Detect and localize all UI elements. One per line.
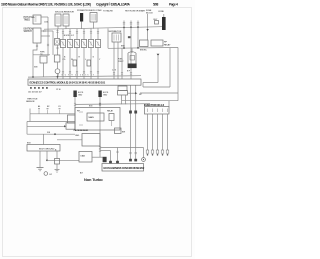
wire left jog [33, 54, 50, 56]
wire plug drop x63 [62, 48, 64, 80]
wire resistor chain [57, 62, 59, 79]
condenser C1 [162, 17, 166, 30]
connector tick left chain b [56, 47, 58, 49]
connector tick on stub [36, 45, 38, 46]
svg-text:MAIN: MAIN [89, 116, 95, 119]
wire x75 down [74, 97, 76, 115]
feed wire y48 [108, 47, 178, 50]
wire long vertical x135.7 lower [135, 85, 137, 160]
wire x57 stub [56, 164, 58, 169]
strip pin squares [30, 87, 32, 89]
injector terminal 1 [146, 150, 149, 153]
connector ticks module feeds [113, 73, 132, 75]
fuel pump connector box [118, 86, 127, 91]
solenoid box M2 [82, 134, 100, 147]
wire plug drop x77 [76, 48, 78, 80]
node dot y134 [54, 133, 56, 135]
small box left of big box [68, 115, 76, 123]
injector terminal 3 [156, 150, 159, 153]
ground symbol GND1 [37, 168, 44, 171]
wire to fuel pump arrow [128, 92, 136, 94]
wire vertical x147.5 [147, 14, 149, 40]
connector dash x137 bottom [134, 159, 137, 162]
check connector J1 [90, 13, 97, 23]
crossing ticks y104 [74, 103, 101, 105]
stub with connector x131 [130, 21, 132, 28]
coil row feed wire x98 [97, 29, 99, 40]
coil row feed wire x91 [90, 29, 92, 40]
wire y157 [92, 156, 103, 158]
ground bar G2 [98, 91, 101, 98]
fuse F1 [151, 40, 163, 46]
svg-text:SWITCH: SWITCH [24, 31, 33, 33]
node dot y104 [99, 103, 101, 105]
injector symbols [148, 109, 168, 113]
wire y150.5 [100, 150, 111, 152]
wire vertical x53 [52, 31, 54, 55]
svg-text:COND: COND [158, 11, 164, 13]
wire coil stubs to bus [58, 26, 66, 29]
svg-text:1995 Nissan-Datsun Maxima DR67: 1995 Nissan-Datsun Maxima DR672 3.0L V6-… [1, 3, 91, 7]
wire x47 down [46, 151, 48, 160]
svg-text:B W R L G Y: B W R L G Y [64, 35, 75, 37]
svg-text:HOT IN ON OR START: HOT IN ON OR START [125, 10, 146, 13]
connector dash x110.5 [109, 161, 112, 164]
connector square x137 [134, 111, 137, 114]
wire S1 to module bus [43, 63, 45, 77]
distributor D1 [112, 33, 121, 42]
connector ticks x131 x137 low [129, 152, 137, 154]
fuel pump plug [118, 91, 128, 95]
screw terminal circle [142, 158, 146, 162]
wire stack drop a [121, 95, 123, 104]
wire x40 down [39, 151, 41, 167]
wire into solenoid [57, 139, 82, 141]
svg-text:101 103 105 107: 101 103 105 107 [28, 92, 43, 94]
injector wire 2 [152, 114, 154, 150]
wire plug drop x98 [97, 48, 99, 80]
diode block D2 [55, 39, 60, 46]
sensor frame left edge [29, 114, 31, 122]
connector dashes row [38, 108, 61, 110]
page border frame [3, 8, 192, 257]
coil row feed wire x77 [76, 29, 78, 40]
small box at big box corner [115, 128, 122, 134]
injector terminal 2 [151, 150, 154, 153]
wire long vertical x130.5 lower [130, 85, 132, 160]
injector terminal 4 [161, 150, 164, 153]
wire vertical x48 [47, 17, 49, 56]
svg-text:SENSOR: SENSOR [26, 101, 35, 103]
svg-text:DIAG: DIAG [81, 155, 86, 158]
wire stack drop b [125, 95, 127, 104]
relay box bottom mid [79, 152, 92, 163]
stub into body box [43, 134, 45, 144]
svg-text:GND: GND [75, 135, 80, 137]
wire left riser x27 [26, 122, 28, 135]
wire into relay box y114 [30, 113, 75, 115]
wire left chain upper [57, 29, 59, 55]
node dot module bus a [32, 76, 34, 78]
ignition switch SW1 [33, 28, 41, 43]
wire x122 drop [121, 48, 123, 79]
wire x117.5 down [117, 148, 119, 164]
svg-text:BLOCK: BLOCK [146, 13, 153, 15]
connector ticks coil row [62, 32, 99, 33]
svg-text:BODY GROUND: BODY GROUND [39, 148, 55, 150]
svg-text:C4 C8 D2 D6 E1: C4 C8 D2 D6 E1 [74, 129, 90, 132]
wire y100.5 [122, 100, 179, 102]
connector box x57 [55, 159, 60, 165]
wire transistor to bus [81, 22, 83, 30]
crossing ticks x100 low [99, 147, 101, 152]
injector wire 5 [167, 114, 169, 150]
inner coil comp [109, 114, 114, 121]
node dot x138 [137, 26, 139, 28]
connector tick x117.5 [116, 151, 118, 153]
svg-text:POWER TR CHECK CONN: POWER TR CHECK CONN [77, 10, 102, 12]
wire vertical x108 [107, 28, 109, 48]
svg-text:B/W R/L: B/W R/L [140, 50, 148, 52]
fuel pump base [128, 64, 137, 69]
connector square x131 [129, 111, 132, 114]
terminal circle E1 [55, 69, 60, 74]
svg-text:TO TACHO: TO TACHO [103, 10, 113, 13]
spark plug P2 [67, 40, 72, 48]
spark plug P5 [88, 40, 93, 48]
body harness flat box [27, 145, 60, 152]
spark plug P1 [60, 40, 65, 48]
wire distributor drop x114 [113, 42, 115, 79]
wire condenser stub [163, 14, 165, 17]
aux box [66, 123, 75, 129]
wire check conn to bus [93, 22, 95, 29]
ECM connector strip [28, 79, 141, 85]
power transistor Q1 [80, 13, 83, 22]
wire plug drop x91 [90, 48, 92, 80]
wire y82.5 [143, 82, 158, 84]
wire vertical x124 lower [123, 28, 125, 49]
wire vertical x138 upper [137, 27, 139, 48]
arrow junction [157, 54, 160, 56]
harness strip box [102, 164, 144, 172]
wire y160 to box [47, 159, 79, 161]
wire ign sw to bus [41, 30, 53, 32]
connector tick on x48 [47, 44, 49, 46]
arrow on fuse feed [146, 29, 148, 31]
wire x143.5 down [143, 148, 145, 158]
coil row feed wire x84 [83, 29, 85, 40]
wire ign sw out 2 [41, 35, 50, 37]
svg-text:Page 4: Page 4 [169, 3, 178, 7]
inner relay rect [87, 113, 104, 121]
wire outer loop bottom [140, 92, 178, 94]
spark plug P4 [81, 40, 86, 48]
wire y104 [75, 103, 150, 106]
svg-text:ECM (ECCS CONTROL MODULE) 16 2: ECM (ECCS CONTROL MODULE) 16 24 31 34 38… [30, 81, 106, 85]
wire y121.5 [27, 121, 75, 123]
injector wire 4 [162, 114, 164, 150]
dark connector block [103, 157, 107, 162]
node dot y48 a [123, 47, 125, 49]
svg-text:GND: GND [103, 95, 108, 97]
wire outer loop right [177, 48, 179, 101]
injector wire 1 [147, 114, 149, 150]
connector dash x131 bottom [129, 159, 132, 162]
module bus wire y76.5 [28, 76, 141, 77]
svg-text:RELAY: RELAY [107, 110, 114, 113]
coil row feed wire x70 [69, 29, 71, 40]
node dot y48 b [137, 47, 139, 49]
resistor block T2 [63, 14, 69, 26]
svg-text:Non Turbo: Non Turbo [84, 177, 103, 182]
svg-text:EGI: EGI [89, 106, 93, 108]
label stubs [39, 110, 60, 114]
svg-text:PUMP: PUMP [118, 61, 124, 63]
connector dash x117.5 [116, 161, 119, 164]
sensor box S1 [40, 56, 47, 63]
wire x143 link [142, 83, 144, 88]
svg-text:Copyright © 1995, ALLDATA: Copyright © 1995, ALLDATA [96, 3, 130, 7]
wire long vertical x131 upper [130, 27, 132, 79]
wire x169 to injectors [168, 101, 170, 107]
wire x100 down [99, 97, 101, 157]
node dot x47 [46, 159, 48, 161]
spark plug P6 [95, 40, 100, 48]
wire mid vertical x158 [157, 55, 159, 83]
connector tick ign wire [43, 30, 45, 32]
connector tick left chain [56, 31, 58, 33]
wire y147.5 [100, 147, 144, 149]
relay K0 [155, 21, 159, 25]
injector terminal 5 [166, 150, 169, 153]
wire inner loop bottom y87 [143, 86, 170, 88]
svg-text:TIMES: TIMES [24, 20, 31, 22]
inner marks left [79, 112, 83, 125]
node dot x131 [130, 26, 132, 28]
wire ign sw bottom stub [33, 43, 37, 77]
relay coil box [140, 40, 149, 47]
svg-text:RELAY: RELAY [164, 43, 171, 46]
wire y126 with arrow [27, 125, 64, 127]
main bus wire [44, 27, 162, 30]
battery B1 [33, 15, 41, 24]
wire plug drop x84 [83, 48, 85, 80]
noise condenser C3 [87, 60, 91, 66]
ground bar G1 [73, 91, 76, 98]
wire y134 [27, 133, 75, 135]
node dot module bus b [57, 76, 59, 78]
wire x57 down [56, 151, 58, 159]
EGI relay big box [75, 108, 120, 131]
noise condenser C2 [73, 60, 77, 66]
coil row feed wire x63 [62, 29, 64, 40]
terminal circle bottom left [44, 172, 48, 176]
wire left corner [29, 109, 31, 114]
ignition coil T1 [55, 14, 61, 26]
wire pump to feed [131, 48, 133, 53]
svg-text:5/98: 5/98 [153, 3, 159, 7]
stub with connector x138 [137, 21, 139, 28]
wire distributor drop x118 [117, 42, 119, 79]
wire plug drop x70 [69, 48, 71, 80]
crank sensor mark [128, 36, 131, 38]
svg-text:B/W: B/W [121, 46, 125, 48]
resistor R1 [54, 55, 60, 62]
node dot x124 [123, 27, 125, 29]
wire battery to node [41, 16, 48, 18]
svg-text:IGN COIL RESISTOR: IGN COIL RESISTOR [55, 12, 74, 14]
injector rail box [145, 107, 170, 115]
stub with connector x124 [123, 21, 125, 29]
injector wire 3 [157, 114, 159, 150]
ground symbol GND2 [55, 169, 60, 172]
spark plug P3 [74, 40, 79, 48]
wire inner loop right x170 [169, 48, 171, 87]
svg-text:ECCS HARNESS CONN M4 M6 M9 M12: ECCS HARNESS CONN M4 M6 M9 M12 [104, 167, 145, 170]
connector ticks above module [62, 72, 99, 74]
fuel pump M1 [128, 52, 136, 64]
svg-text:GND: GND [78, 95, 83, 97]
wire x110.5 down [110, 151, 112, 164]
svg-text:THROTTLE: THROTTLE [27, 99, 38, 101]
